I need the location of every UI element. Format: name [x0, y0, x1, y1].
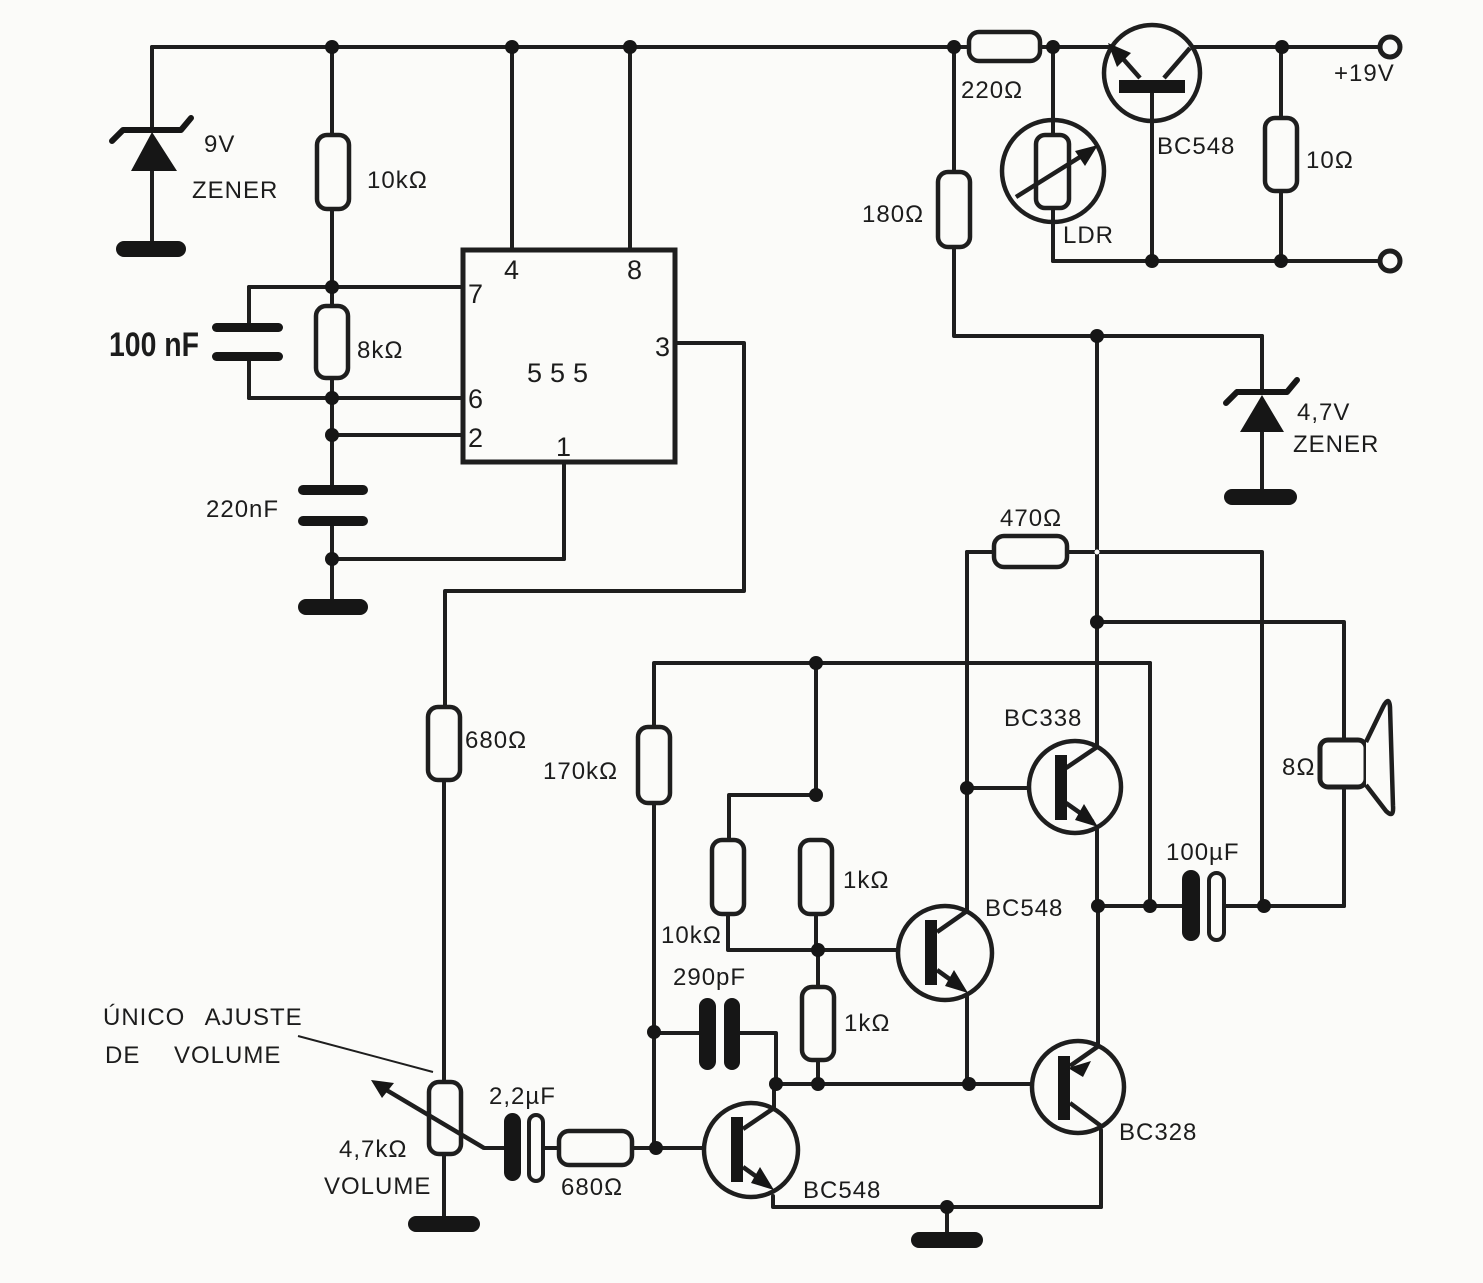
svg-text:680Ω: 680Ω [561, 1174, 623, 1201]
wire LDR bottom lead [1051, 220, 1055, 261]
wire 1k2 top lead [816, 950, 820, 987]
ground volume pot [408, 1216, 480, 1232]
transistor BC328 [1032, 1041, 1124, 1133]
svg-text:1: 1 [556, 432, 571, 462]
svg-text:BC548: BC548 [1157, 133, 1235, 160]
svg-text:9V: 9V [204, 131, 235, 158]
wire 555 pin8 [628, 47, 632, 250]
ground 9V zener [116, 241, 186, 257]
svg-text:100µF: 100µF [1166, 839, 1240, 866]
svg-text:220Ω: 220Ω [961, 77, 1023, 104]
wire pin6 node horizontal [249, 396, 463, 400]
resistor 220 [969, 32, 1040, 61]
wire upper bias rail [654, 663, 1150, 727]
potentiometer 4.7k body [429, 1082, 461, 1154]
wire pin2 node horizontal [332, 433, 463, 437]
svg-text:100 nF: 100 nF [109, 326, 199, 364]
svg-text:4,7V: 4,7V [1297, 399, 1350, 426]
svg-text:1kΩ: 1kΩ [844, 1010, 891, 1037]
wire 555 pin3 output [445, 343, 744, 707]
svg-text:6: 6 [468, 384, 483, 414]
resistor 180 [938, 172, 970, 247]
wire 100nF top lead [247, 287, 251, 324]
wire pot wiper to 2.2uF [484, 1146, 504, 1150]
svg-text:4,7kΩ: 4,7kΩ [339, 1136, 408, 1163]
wire BC548 top emitter [1150, 93, 1154, 261]
wire 100uF left lead [1097, 904, 1182, 908]
LDR [1002, 120, 1104, 223]
resistor 10k bottom [712, 840, 744, 914]
wire 290pF left lead [654, 1031, 699, 1035]
svg-text:4: 4 [504, 255, 519, 285]
wire 1k1 top lead [814, 663, 818, 795]
resistor 680 vertical [428, 707, 460, 780]
wire 100uF right lead [1224, 904, 1344, 908]
resistor 10k top [317, 135, 349, 209]
wire BC548 bot emitter down [773, 1196, 1101, 1207]
wire zener9V bottom lead [150, 170, 154, 243]
wire 100nF bottom lead [247, 360, 251, 398]
wire BC548 mid emitter down [965, 994, 969, 1084]
wire top rail [152, 45, 1380, 49]
svg-text:2: 2 [468, 423, 483, 453]
svg-text:ZENER: ZENER [192, 177, 278, 204]
zener diode 4.7V [1226, 380, 1297, 432]
wire speaker bottom lead [1342, 787, 1346, 906]
wire pin1 node horizontal [332, 557, 564, 561]
svg-text:8: 8 [627, 255, 642, 285]
svg-text:BC548: BC548 [803, 1177, 881, 1204]
wire BC338 emitter down [1095, 827, 1099, 906]
svg-text:470Ω: 470Ω [1000, 505, 1062, 532]
svg-text:10Ω: 10Ω [1306, 147, 1354, 174]
svg-text:10kΩ: 10kΩ [661, 922, 722, 949]
svg-text:DE VOLUME: DE VOLUME [105, 1042, 281, 1069]
wire 170k bottom rail down [652, 803, 656, 1148]
wire zener9V top lead [150, 47, 154, 129]
ground 4.7V zener [1224, 489, 1297, 505]
wire base BC548 mid [818, 948, 925, 952]
svg-text:3: 3 [655, 332, 670, 362]
wire 2.2uF to 680 [543, 1146, 559, 1150]
svg-text:7: 7 [468, 279, 483, 309]
wire 290pF right lead [740, 1033, 776, 1084]
wire 680 to BC548 base [632, 1146, 731, 1150]
terminal output return [1380, 251, 1400, 271]
wire feedback node horizontal [776, 1082, 1059, 1086]
wire zener4V7 bottom lead [1260, 430, 1264, 490]
wire BC328 base lead [969, 1082, 1059, 1086]
svg-text:555: 555 [527, 358, 596, 388]
speaker 8ohm [1320, 701, 1393, 814]
wire 470 left stub [967, 550, 994, 554]
wire 1k2 bottom lead [816, 1060, 820, 1084]
svg-text:170kΩ: 170kΩ [543, 758, 618, 785]
capacitor 2.2uF electrolytic [504, 1113, 543, 1181]
svg-text:8Ω: 8Ω [1282, 754, 1316, 781]
svg-text:180Ω: 180Ω [862, 201, 924, 228]
wire BC548 mid collector up [965, 788, 969, 912]
wire 10k bottom lead [330, 209, 334, 287]
resistor 170k [638, 727, 670, 803]
wire 555 pin4 [510, 47, 514, 250]
svg-text:LDR: LDR [1063, 222, 1114, 249]
svg-text:BC328: BC328 [1119, 1119, 1197, 1146]
capacitor 100uF electrolytic [1182, 870, 1224, 941]
wire 10k2 top jog [729, 795, 816, 840]
resistor 1k lower [802, 987, 834, 1060]
transistor BC548 top [1104, 25, 1200, 123]
wire zener4V7 top lead [1260, 336, 1264, 390]
terminal +19V [1380, 37, 1400, 57]
resistor 680 horizontal [559, 1131, 632, 1165]
wire BC328 collector up [1096, 906, 1100, 1044]
capacitor 290pF plates [699, 998, 716, 1070]
555 timer box [463, 250, 675, 462]
wire BC548 bot collector up [772, 1084, 776, 1112]
resistor 470 [994, 536, 1067, 567]
wire 10ohm bottom lead [1279, 191, 1283, 261]
svg-text:ÚNICO AJUSTE: ÚNICO AJUSTE [103, 1004, 303, 1031]
svg-text:+19V: +19V [1334, 60, 1395, 87]
zener diode 9V [112, 118, 191, 171]
wire 555 pin1 vertical [562, 462, 566, 559]
capacitor 220nF plates [298, 485, 368, 495]
wire 180 bottom lead [954, 247, 1262, 336]
wire node pin6 to pin2 [330, 398, 334, 485]
svg-text:8kΩ: 8kΩ [357, 337, 404, 364]
wire 470 left lead vertical [965, 552, 969, 912]
ground output stage [911, 1232, 983, 1248]
resistor 8k [316, 306, 348, 378]
svg-text:10kΩ: 10kΩ [367, 167, 428, 194]
wire LDR top lead [1051, 47, 1055, 122]
resistor 1k upper [800, 840, 832, 914]
wire 10k top lead [330, 47, 334, 135]
potentiometer wiper arrow [371, 1080, 484, 1148]
svg-text:220nF: 220nF [206, 496, 279, 523]
svg-text:1kΩ: 1kΩ [843, 867, 890, 894]
wire 8k bottom lead [330, 378, 334, 398]
svg-text:BC338: BC338 [1004, 705, 1082, 732]
capacitor 100nF plates [212, 323, 283, 332]
annotation pointer line [298, 1036, 433, 1072]
wire 180 top lead [952, 47, 956, 172]
wire 1k1 bottom lead [814, 914, 818, 950]
svg-text:VOLUME: VOLUME [324, 1173, 431, 1200]
svg-text:290pF: 290pF [673, 964, 746, 991]
wire ground stub bottom [945, 1207, 949, 1234]
wire 220nF bottom lead [330, 525, 334, 600]
wire 470 right to cap node [1067, 552, 1262, 906]
wire bottom right rail [1053, 259, 1380, 263]
wire pot bottom to ground [442, 1154, 446, 1218]
transistor BC338 [1029, 741, 1121, 833]
wire 8k top lead [330, 287, 334, 306]
wire 680 to volume pot [442, 780, 446, 1082]
wire main vertical node [1095, 336, 1099, 747]
wire 10k2 bottom lead [728, 914, 818, 950]
resistor 10ohm [1265, 118, 1297, 191]
wire bias rail corner down [1148, 663, 1152, 906]
svg-text:BC548: BC548 [985, 895, 1063, 922]
transistor BC548 bottom [704, 1103, 798, 1197]
no-connect gap marker [1095, 550, 1100, 555]
ground 220nF [298, 599, 368, 615]
wire 10ohm top lead [1279, 47, 1283, 118]
svg-text:ZENER: ZENER [1293, 431, 1379, 458]
transistor BC548 middle [898, 906, 992, 1000]
wire pin7 node horizontal [249, 285, 463, 289]
wire speaker top feed [1097, 622, 1344, 740]
wire BC338 base lead [967, 786, 1055, 790]
wire BC328 emitter down [1099, 1130, 1103, 1207]
svg-text:680Ω: 680Ω [465, 727, 527, 754]
svg-text:2,2µF: 2,2µF [489, 1083, 556, 1110]
